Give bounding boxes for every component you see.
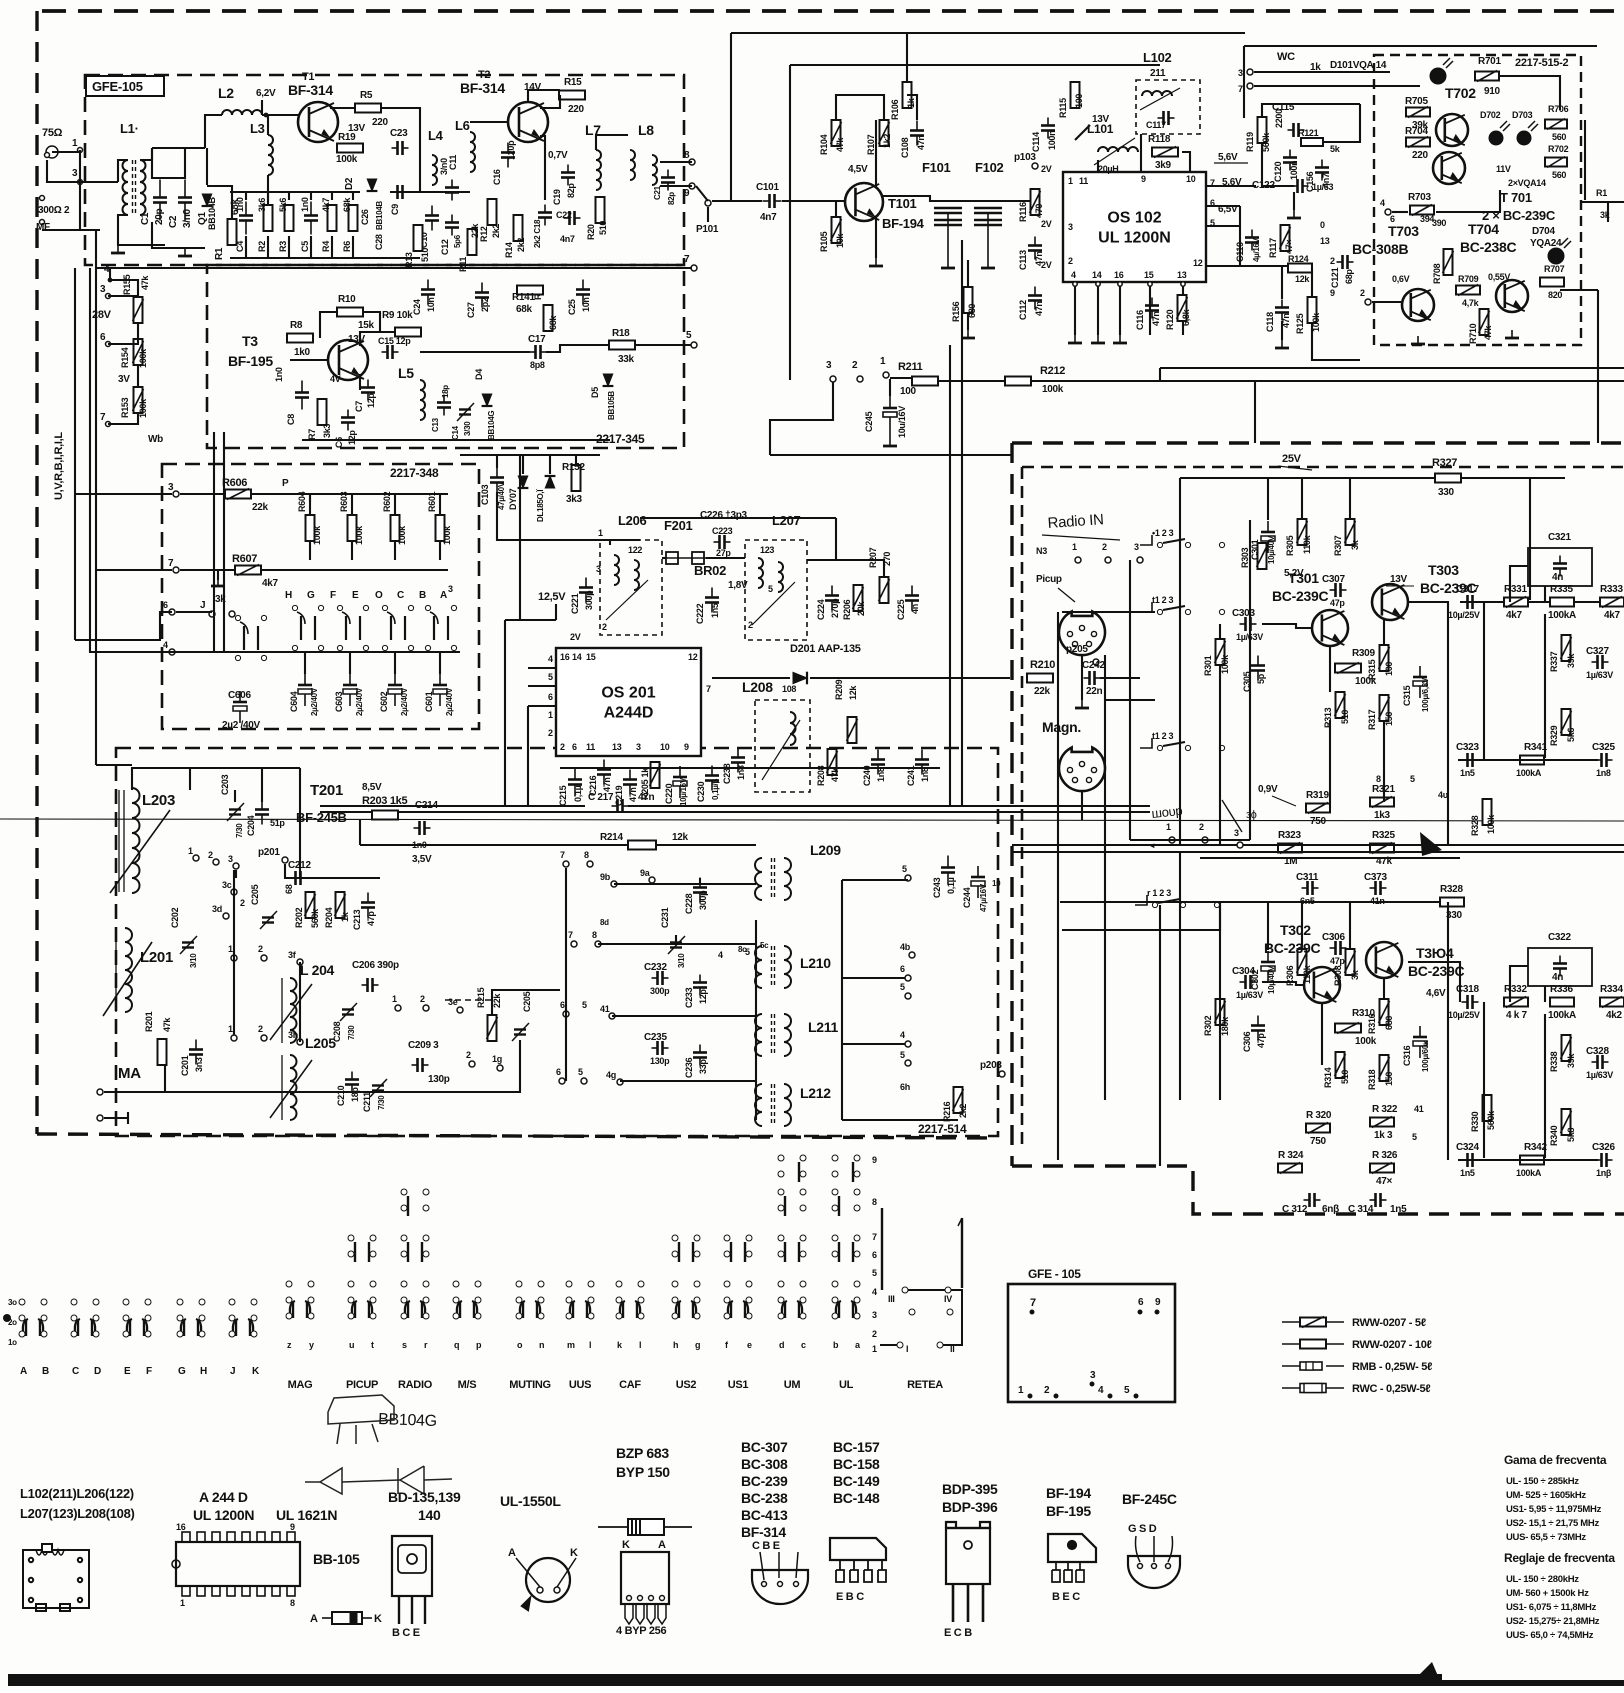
svg-text:1: 1 — [598, 528, 603, 538]
resistor R119 560k — [1258, 117, 1267, 143]
svg-text:5: 5 — [768, 584, 773, 594]
value 3k3 — [322, 424, 332, 438]
C245 gnd — [883, 438, 897, 446]
svg-text:R115: R115 — [1058, 98, 1068, 118]
gfe pin9 dot — [1155, 1310, 1160, 1315]
connector group CD — [71, 1299, 99, 1337]
value 47n C116 — [1151, 311, 1161, 326]
value 100 R115 — [1074, 94, 1084, 108]
svg-text:L203: L203 — [142, 792, 175, 809]
input h4 — [1062, 902, 1220, 930]
svg-text:C304: C304 — [1232, 966, 1255, 977]
label C5 — [300, 241, 310, 252]
electrolytic C601 2u2/40V — [433, 674, 447, 706]
svg-text:C603: C603 — [334, 691, 344, 712]
relay gnd — [211, 578, 225, 586]
upper pins RADIO — [401, 1235, 429, 1262]
resistor R154 100k — [133, 339, 144, 365]
svg-text:C209 3: C209 3 — [408, 1040, 439, 1051]
inductor L206a — [614, 555, 619, 585]
svg-text:A: A — [658, 1539, 666, 1551]
left pin3 — [106, 294, 111, 299]
legend lead2 1366 — [1326, 1365, 1344, 1367]
svg-text:1n8: 1n8 — [876, 767, 886, 782]
svg-text:R206: R206 — [842, 599, 852, 620]
svg-text:C306: C306 — [1242, 1031, 1252, 1052]
pkg UL-1550L drawing — [516, 1558, 576, 1610]
resistor R331 4k7 — [1504, 597, 1528, 608]
capacitor C242 22n — [1084, 671, 1101, 685]
svg-text:220: 220 — [568, 104, 585, 115]
svg-text:300p: 300p — [650, 986, 670, 996]
capacitor C209 130p — [412, 1058, 429, 1072]
value 0,1u C243 — [946, 877, 956, 894]
handwritten BB104G — [378, 1411, 437, 1430]
resistor R601 100k — [436, 515, 445, 541]
svg-text:R141: R141 — [512, 292, 535, 303]
L2 to T1 — [262, 114, 300, 116]
value 10n C24 — [426, 297, 436, 312]
svg-text:47p: 47p — [1330, 598, 1345, 608]
resistor R308 3k — [1345, 949, 1356, 975]
node L2 out — [264, 113, 269, 118]
svg-text:C203: C203 — [220, 774, 230, 795]
svg-text:C602: C602 — [379, 691, 389, 712]
pin3 bias long — [770, 454, 1012, 456]
svg-text:C205: C205 — [522, 991, 532, 1012]
pin 9 node — [689, 183, 695, 189]
R212 right — [1031, 380, 1624, 382]
svg-text:C242: C242 — [1082, 660, 1105, 671]
label C6 — [334, 437, 344, 448]
svg-text:1: 1 — [548, 710, 553, 720]
wire pin7 R101 — [96, 267, 692, 269]
label C216 — [588, 775, 598, 796]
svg-text:R704: R704 — [1405, 126, 1428, 137]
T101 emitter gnd — [869, 258, 883, 266]
svg-text:R156: R156 — [951, 301, 961, 322]
pin 3e node — [457, 1007, 463, 1013]
svg-text:10: 10 — [660, 742, 670, 752]
legend lead 1366 — [1282, 1365, 1300, 1367]
capacitor C8 1n0 — [295, 381, 309, 410]
r606 right — [251, 494, 310, 502]
label R119 — [1245, 132, 1255, 152]
svg-text:2: 2 — [1199, 822, 1204, 832]
pin2 meter node — [1365, 299, 1371, 305]
connector group MUTING — [516, 1281, 544, 1319]
label C236 — [684, 1057, 694, 1078]
svg-text:16: 16 — [560, 652, 570, 662]
audio w11 — [1180, 844, 1290, 846]
svg-text:US1: US1 — [728, 1379, 749, 1391]
svg-text:R116: R116 — [1018, 202, 1028, 222]
svg-text:R607: R607 — [232, 553, 257, 565]
label R104 — [819, 134, 829, 155]
r214 wire r — [656, 844, 756, 846]
svg-text:47p: 47p — [1330, 956, 1345, 966]
label C13 — [431, 417, 440, 432]
capacitor C327 — [1592, 655, 1609, 669]
module box 2217-515-2 indicator — [1374, 55, 1581, 345]
svg-text:D5: D5 — [590, 387, 600, 398]
t201 bus2 — [299, 768, 301, 878]
svg-text:68p: 68p — [1344, 269, 1354, 284]
svg-text:6: 6 — [100, 332, 106, 343]
svg-text:47n: 47n — [1151, 311, 1161, 326]
svg-text:14: 14 — [1092, 270, 1102, 280]
label C240 — [862, 765, 872, 786]
svg-text:C243: C243 — [932, 877, 942, 898]
svg-text:GFE - 105: GFE - 105 — [1028, 1267, 1081, 1281]
value 1k R204 — [340, 911, 350, 922]
value R107 — [882, 134, 892, 148]
L205 pin1 — [231, 1035, 237, 1041]
os201 left pins3 — [528, 705, 556, 707]
rc net v2 — [1544, 614, 1546, 758]
ic top wire10 — [1182, 152, 1190, 172]
gfe pin5 dot — [1134, 1394, 1139, 1399]
svg-text:BC-413: BC-413 — [741, 1507, 788, 1523]
svg-text:100kA: 100kA — [1516, 1168, 1542, 1178]
label C108 — [900, 137, 910, 158]
capacitor C115 2200 — [1288, 123, 1305, 137]
svg-text:K: K — [622, 1539, 630, 1551]
label R116 — [1018, 202, 1028, 222]
meter wire d — [1436, 190, 1500, 212]
svg-text:E C B: E C B — [944, 1627, 972, 1639]
label R602 — [382, 491, 392, 512]
svg-text:150: 150 — [1384, 1072, 1394, 1086]
svg-text:C315: C315 — [1402, 685, 1412, 706]
svg-text:C307: C307 — [1322, 574, 1345, 585]
resistor R107 — [879, 120, 890, 146]
left pin7 — [106, 422, 111, 427]
electrolytic C245 — [883, 396, 897, 438]
top supply drop — [730, 33, 732, 201]
svg-text:R124: R124 — [1288, 254, 1309, 264]
pin4 L211 — [905, 1041, 911, 1047]
trimmer C231 3/10 — [668, 936, 685, 954]
svg-text:C211: C211 — [362, 1092, 372, 1112]
svg-text:4k7: 4k7 — [262, 578, 279, 589]
electrolytic C606 — [233, 691, 247, 723]
capacitor C2 3n0 — [178, 180, 192, 221]
label R317 — [1367, 709, 1377, 730]
svg-text:R3: R3 — [278, 241, 288, 252]
T101 emitter down — [875, 216, 877, 258]
capacitor C5 1n0 — [304, 202, 318, 235]
svg-text:BC-148: BC-148 — [833, 1490, 880, 1506]
svg-text:R338: R338 — [1549, 1051, 1559, 1072]
label R329 — [1549, 725, 1559, 746]
am pin 2 — [213, 859, 219, 865]
svg-text:M/S: M/S — [458, 1379, 477, 1391]
inductor L205 — [290, 1055, 297, 1120]
svg-text:47n: 47n — [638, 792, 655, 803]
IC OS102 UL1200N — [1063, 172, 1206, 282]
svg-text:4b: 4b — [900, 942, 911, 952]
value 4n C225 — [910, 604, 920, 614]
svg-text:3,5V: 3,5V — [412, 854, 432, 865]
ladder top bus — [230, 191, 360, 193]
input wire v1 — [1057, 612, 1059, 1160]
svg-text:L102: L102 — [1143, 50, 1172, 65]
IC gnd b — [1091, 335, 1105, 343]
svg-text:1,8V: 1,8V — [728, 580, 748, 591]
svg-text:2: 2 — [748, 620, 753, 630]
svg-text:68k: 68k — [548, 315, 558, 330]
value 47k R208 — [830, 767, 840, 782]
audio w3 — [1349, 478, 1351, 518]
connector group JK — [229, 1299, 257, 1337]
svg-text:BDP-395: BDP-395 — [942, 1481, 998, 1497]
relay pin4 — [169, 649, 175, 655]
svg-text:R 320: R 320 — [1306, 1110, 1332, 1121]
svg-text:10µ/25V: 10µ/25V — [1448, 1010, 1480, 1020]
value 47n C113 — [1034, 251, 1044, 266]
svg-text:1: 1 — [1166, 822, 1171, 832]
r327 right — [1461, 478, 1530, 600]
value 47k R117 — [1284, 240, 1294, 254]
L204 pin1 — [231, 955, 237, 961]
capacitor C112 47n — [1028, 287, 1042, 310]
value 150 R318 — [1384, 1072, 1394, 1086]
resistor R1 68k — [228, 219, 237, 245]
svg-text:5: 5 — [1124, 1385, 1130, 1396]
R4 top wire — [331, 192, 333, 200]
resistor R209 12k — [847, 717, 858, 743]
upper pins2 RADIO — [401, 1189, 429, 1216]
svg-text:C19: C19 — [552, 189, 562, 205]
svg-text:3k3: 3k3 — [566, 494, 583, 505]
svg-text:UL- 150 ÷ 285kHz: UL- 150 ÷ 285kHz — [1506, 1476, 1579, 1487]
svg-text:7: 7 — [1238, 84, 1243, 94]
svg-text:2217-515-2: 2217-515-2 — [1515, 57, 1568, 69]
capacitor C1 20p — [153, 180, 167, 221]
R2 bot wire — [267, 236, 269, 258]
svg-text:C14: C14 — [451, 425, 460, 440]
label R301 — [1203, 655, 1213, 676]
svg-text:13: 13 — [612, 742, 622, 752]
r607 wire — [180, 569, 235, 571]
svg-text:G S D: G S D — [1128, 1523, 1157, 1535]
svg-text:d: d — [779, 1340, 784, 1350]
svg-text:33p: 33p — [698, 1059, 708, 1074]
svg-text:C21: C21 — [653, 185, 662, 200]
capacitor C216 47n — [597, 760, 611, 785]
right column v2 — [1584, 120, 1586, 200]
svg-text:6: 6 — [548, 692, 553, 702]
diode cluster drops2 — [522, 455, 524, 474]
svg-text:BF-195: BF-195 — [1046, 1503, 1091, 1519]
svg-text:BC-239C: BC-239C — [1408, 963, 1464, 979]
svg-text:1k2: 1k2 — [882, 134, 892, 148]
svg-text:R705: R705 — [1405, 96, 1428, 107]
coil module L206 — [600, 540, 662, 635]
capacitor C215 0.1u — [568, 768, 582, 797]
svg-text:p201: p201 — [258, 847, 280, 858]
svg-text:C373: C373 — [1364, 872, 1387, 883]
svg-text:BC-238C: BC-238C — [1460, 239, 1516, 255]
trimmer C205a — [260, 911, 277, 929]
svg-text:L6: L6 — [455, 118, 470, 133]
svg-text:9b: 9b — [600, 872, 611, 882]
svg-text:R107: R107 — [866, 134, 876, 155]
svg-text:R5: R5 — [360, 90, 373, 101]
electrolytic C301 — [1261, 521, 1275, 553]
resistor R8 1k0 — [287, 334, 313, 343]
svg-text:C604: C604 — [289, 691, 299, 712]
capacitor C7 12p — [361, 380, 375, 401]
transistor T3 BF-195 — [328, 340, 368, 380]
value 3k6 — [257, 198, 267, 212]
svg-text:4 k 7: 4 k 7 — [1506, 1010, 1527, 1021]
meter frame top — [1244, 45, 1597, 47]
value C301 — [1267, 535, 1276, 564]
label R216 — [942, 1101, 952, 1122]
label C1 — [140, 212, 151, 225]
capacitor C304 1u63 — [1240, 975, 1257, 989]
dec wire b — [662, 557, 666, 559]
audio w5 — [1329, 646, 1331, 692]
capacitor C240 1n8 — [871, 750, 885, 775]
trimmer C203 — [227, 803, 244, 821]
c20x top — [234, 790, 236, 802]
value 33p C236 — [698, 1059, 708, 1074]
resistor R15 220 — [559, 91, 585, 100]
svg-text:R332: R332 — [1504, 984, 1527, 995]
svg-text:C 217: C 217 — [588, 792, 614, 803]
svg-text:300Ω 2: 300Ω 2 — [38, 205, 70, 216]
svg-text:4: 4 — [548, 654, 553, 664]
svg-text:9: 9 — [872, 1155, 877, 1165]
svg-text:g: g — [695, 1340, 700, 1350]
am pin column ext — [233, 870, 235, 962]
svg-text:T702: T702 — [1445, 85, 1476, 101]
am top wire — [359, 820, 361, 845]
label C11 — [448, 155, 458, 170]
svg-text:510: 510 — [420, 248, 430, 262]
svg-text:5: 5 — [902, 864, 907, 874]
svg-text:BC-149: BC-149 — [833, 1473, 880, 1489]
svg-text:12k: 12k — [1295, 274, 1310, 284]
svg-text:R337: R337 — [1549, 651, 1559, 672]
svg-text:C221: C221 — [570, 593, 580, 614]
svg-text:R215: R215 — [476, 987, 486, 1008]
svg-text:3: 3 — [100, 284, 106, 295]
svg-text:2µ2 /40V: 2µ2 /40V — [222, 720, 260, 731]
pickup din gnd — [1075, 700, 1089, 708]
audio mid bus 1 — [1012, 844, 1624, 846]
resistor R156 680 — [964, 287, 973, 313]
resistor R141 68k — [517, 286, 543, 295]
svg-text:T302: T302 — [1280, 922, 1311, 938]
resistor R323 1M — [1278, 843, 1302, 854]
resistor R334 4k2 — [1600, 997, 1624, 1008]
svg-text:10: 10 — [992, 879, 1001, 888]
label R603 — [339, 491, 349, 512]
svg-text:Gama de frecventa: Gama de frecventa — [1504, 1453, 1607, 1467]
bus under decoder 2 — [628, 805, 1150, 807]
svg-text:10u/16V: 10u/16V — [897, 406, 907, 438]
svg-text:C238: C238 — [722, 763, 732, 784]
inductor L207a — [758, 558, 763, 588]
resistor R216 2k2 — [953, 1087, 964, 1113]
T3 wire 5 — [635, 344, 692, 346]
svg-text:11: 11 — [586, 742, 595, 752]
L208 arrow — [762, 720, 800, 780]
svg-text:c: c — [801, 1340, 806, 1350]
connector group UL — [832, 1281, 860, 1319]
svg-text:BC-307: BC-307 — [741, 1439, 788, 1455]
diode cluster drops4 — [575, 455, 577, 465]
am l20x bus — [299, 962, 301, 1042]
label R302 — [1203, 1015, 1213, 1036]
svg-text:C205: C205 — [250, 884, 260, 905]
svg-text:12p: 12p — [366, 393, 376, 408]
svg-text:2: 2 — [420, 994, 425, 1004]
svg-text:R606: R606 — [222, 477, 247, 489]
label R125 — [1295, 313, 1305, 334]
svg-text:R214: R214 — [600, 832, 623, 843]
pin5b L210 — [905, 993, 911, 999]
label C119 — [1235, 242, 1245, 262]
svg-text:6h: 6h — [900, 1082, 910, 1092]
connector group UUS — [566, 1281, 594, 1319]
svg-text:560: 560 — [1552, 132, 1566, 142]
svg-text:C202: C202 — [170, 907, 180, 928]
inductor L3 — [268, 135, 273, 175]
label C9 15p — [390, 204, 400, 215]
label R155 — [122, 274, 132, 295]
relay contact group B-A — [425, 605, 456, 650]
resistor R327 330 — [1435, 474, 1461, 483]
vertical text UVRBIRIL — [53, 432, 65, 500]
svg-text:BC-239C: BC-239C — [1272, 588, 1328, 604]
pin6 L210 — [905, 975, 911, 981]
radio in underline — [1042, 535, 1120, 540]
dec wire a — [640, 517, 836, 519]
top supply bus — [731, 32, 1245, 34]
filter F101 gnd — [941, 260, 955, 268]
capacitor C303 1u63 — [1240, 617, 1257, 631]
svg-text:RWC - 0,25W-5ℓ: RWC - 0,25W-5ℓ — [1352, 1383, 1430, 1395]
audio top bus drop L — [1179, 478, 1181, 845]
value 270 — [882, 552, 892, 566]
resistor R203 — [372, 811, 398, 820]
svg-text:15: 15 — [586, 652, 596, 662]
transformer L212 — [755, 1084, 791, 1126]
MA pin — [97, 1089, 103, 1095]
T2 coll wire — [540, 95, 560, 108]
value 39k R337 — [1566, 653, 1576, 668]
svg-text:8: 8 — [290, 1598, 295, 1608]
value 47u16V — [979, 883, 988, 912]
value 2k2 R216 — [958, 1104, 968, 1118]
svg-text:R331: R331 — [1504, 584, 1527, 595]
long wire left v2 — [95, 268, 97, 765]
L3 top — [267, 115, 269, 135]
svg-text:9a: 9a — [640, 868, 651, 878]
capacitor C12 5p6 — [445, 215, 459, 236]
svg-text:560k: 560k — [1486, 1110, 1496, 1130]
trafo cap wire 2 — [675, 935, 677, 944]
svg-text:12,5V: 12,5V — [538, 591, 566, 603]
R601 bot wire — [439, 541, 441, 560]
svg-text:R305: R305 — [1285, 535, 1295, 556]
svg-text:82p: 82p — [566, 183, 576, 198]
